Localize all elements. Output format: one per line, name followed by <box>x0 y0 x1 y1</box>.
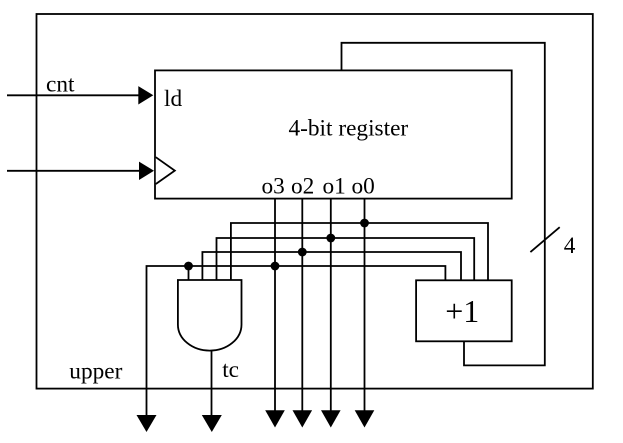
svg-text:upper: upper <box>69 358 122 384</box>
svg-text:4-bit register: 4-bit register <box>289 116 409 142</box>
svg-text:o1: o1 <box>323 174 346 200</box>
svg-text:o2: o2 <box>291 174 314 200</box>
svg-text:4: 4 <box>564 233 576 259</box>
svg-text:cnt: cnt <box>46 72 75 98</box>
svg-text:tc: tc <box>222 357 239 383</box>
svg-text:ld: ld <box>164 86 182 112</box>
svg-text:+1: +1 <box>445 293 479 329</box>
svg-text:o0: o0 <box>352 174 375 200</box>
svg-text:o3: o3 <box>262 174 285 200</box>
